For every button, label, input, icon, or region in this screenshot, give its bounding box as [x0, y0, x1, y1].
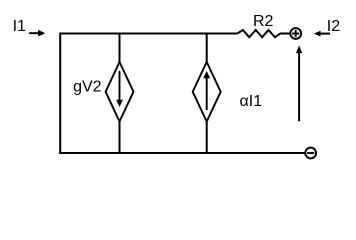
svg-text:αI1: αI1: [240, 93, 263, 110]
svg-text:R2: R2: [253, 13, 274, 30]
svg-text:gV2: gV2: [73, 79, 102, 96]
svg-text:I1: I1: [13, 18, 26, 35]
svg-text:I2: I2: [327, 18, 340, 35]
